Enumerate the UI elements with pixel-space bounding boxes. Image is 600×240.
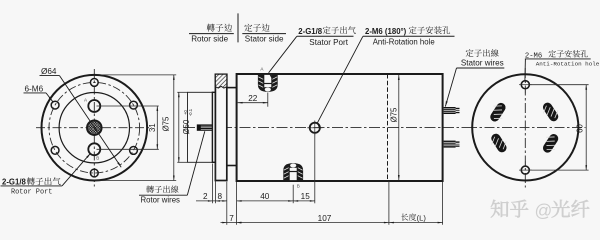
outer circle right view [472,74,578,180]
leader stator port [269,36,297,73]
leader D64 [60,76,122,168]
svg-text:Ø75: Ø75 [390,107,399,122]
svg-text:Rotor Port: Rotor Port [11,189,52,197]
svg-text:107: 107 [318,214,332,223]
rotor port B circle (bottom) [88,143,100,155]
M6 holes top/bottom [521,81,529,89]
label rotor side [207,24,232,32]
D50c5 spigot disc [212,92,215,162]
svg-text:Stator wires: Stator wires [461,59,504,68]
svg-text:2-G1/8: 2-G1/8 [2,177,26,186]
label stator wires [466,49,499,57]
svg-text:Ø64: Ø64 [41,67,57,76]
stator body [237,74,443,181]
svg-text:Ø75: Ø75 [162,116,171,131]
centerlines right view [524,68,526,188]
svg-text:2: 2 [203,192,208,201]
centerline side view [184,127,467,129]
svg-text:Ø50: Ø50 [182,119,191,134]
svg-text:Anti-Rotation hole: Anti-Rotation hole [536,60,600,67]
leader 2-M6 right [524,59,527,80]
dim 2 and 8 [196,200,227,202]
dim 60 [530,84,589,86]
leader rotor wires [187,131,205,195]
outer circle D75 flange [42,75,148,181]
rotor port A circle (top) [88,100,100,112]
4 wire slots [486,100,509,125]
dim 22 [238,102,268,104]
dimension 31 [97,105,159,107]
centerlines left view [93,69,95,187]
stator wire stubs right [444,107,456,114]
svg-text:40: 40 [260,192,270,201]
svg-text:Stator side: Stator side [245,35,284,44]
stator port A fitting (top) [258,74,278,92]
rotor wire bundle [197,124,213,130]
svg-text:Rotor side: Rotor side [191,35,228,44]
svg-text:B: B [297,183,300,188]
port A axis/extension to dim 22 [267,93,269,107]
rotor flange plate D75x8 [215,74,226,180]
svg-text:Rotor wires: Rotor wires [141,195,181,204]
neck 7mm [227,87,237,89]
dim length L [389,222,443,224]
dimension D75 left view [96,74,177,76]
separator line [237,13,239,42]
svg-text:(L): (L) [417,214,427,223]
inner circle D50 boss [59,93,129,163]
watermark zhihu [491,200,529,218]
leader stator wires [445,68,456,107]
svg-text:60: 60 [576,124,585,133]
svg-text:2-G1/8: 2-G1/8 [298,27,322,36]
label stator side [244,24,269,32]
svg-text:Stator Port: Stator Port [309,38,348,47]
M6 anti-rotation hole on body [310,123,320,133]
dim 40 and 15 [237,200,315,202]
svg-text:2-M6 (180°): 2-M6 (180°) [365,27,407,36]
svg-text:Anti-Rotation hole: Anti-Rotation hole [373,38,435,47]
dim D75 on body [398,75,400,180]
leader 6-M6 [46,93,53,102]
leader rotor port [62,153,91,186]
svg-text:6-M6: 6-M6 [25,84,44,93]
stator port B fitting (bottom) [283,163,303,181]
dimension D50 [177,91,187,93]
svg-text:7: 7 [229,214,234,223]
svg-text:-0.1: -0.1 [188,108,193,116]
svg-text:8: 8 [218,192,223,201]
svg-text:15: 15 [301,192,311,201]
extension M6 hole down [314,133,316,203]
dashed break line (variable length) [387,74,389,181]
svg-text:31: 31 [148,123,157,132]
dim 7 [221,222,237,224]
dim 107 [237,222,389,224]
svg-text:B: B [96,156,99,161]
extension lines bottom dims [211,164,213,204]
leader anti-rotation [317,36,363,123]
svg-text:22: 22 [248,94,258,103]
6x M6 bolt holes [90,79,98,87]
label rotor wires [146,186,178,194]
rotor shaft thin rect [188,92,213,162]
bolt circle D64 dash-dot [49,82,140,173]
svg-text:@: @ [535,201,553,221]
